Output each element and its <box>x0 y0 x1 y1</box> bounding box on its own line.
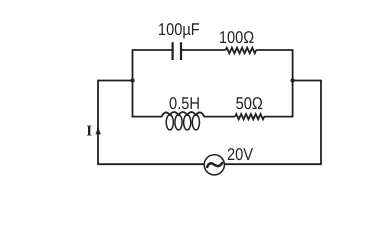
svg-text:0.5H: 0.5H <box>169 94 200 113</box>
svg-text:I: I <box>86 124 92 140</box>
wire: top branch right segment <box>256 49 293 51</box>
wire: node B to right rail <box>293 80 321 82</box>
inductor 0.5H loop 4 <box>192 115 199 130</box>
inductor 0.5H loop 1 <box>166 115 173 130</box>
current arrow I (pointing up) <box>96 127 101 134</box>
node B junction dot <box>290 78 294 82</box>
wire: bottom right segment <box>225 163 322 165</box>
wire: bottom left segment <box>97 163 204 165</box>
AC source 20V circle <box>204 155 224 175</box>
wire: middle branch left segment <box>132 116 162 118</box>
wire: middle branch up to node B <box>292 81 294 117</box>
svg-text:50Ω: 50Ω <box>236 94 263 113</box>
inductor 0.5H humps <box>161 112 204 117</box>
node A junction dot <box>130 78 134 82</box>
svg-text:20V: 20V <box>227 145 254 164</box>
wire: node A to left rail <box>98 80 133 82</box>
inductor 0.5H loop 3 <box>184 115 191 130</box>
resistor 50Ω <box>235 114 264 119</box>
wire: capacitor to resistor 100Ω <box>182 49 226 51</box>
wire: top-right vertical (top branch down to node B) <box>292 50 294 81</box>
wire: top-left vertical (node A up to top branch) <box>132 50 134 81</box>
wire: left rail vertical <box>97 80 99 165</box>
svg-text:100µF: 100µF <box>158 20 200 39</box>
AC source sine symbol <box>207 163 222 167</box>
wire: right rail vertical <box>320 80 322 165</box>
wire: top branch left segment <box>132 49 172 51</box>
inductor 0.5H loop 2 <box>175 115 182 130</box>
capacitor 100µF <box>173 42 181 60</box>
resistor 100Ω <box>226 48 257 54</box>
wire: inductor to resistor 50Ω <box>205 116 236 118</box>
wire: middle branch right segment <box>264 116 294 118</box>
svg-text:100Ω: 100Ω <box>219 28 254 47</box>
wire: node A down to middle branch <box>132 81 134 118</box>
